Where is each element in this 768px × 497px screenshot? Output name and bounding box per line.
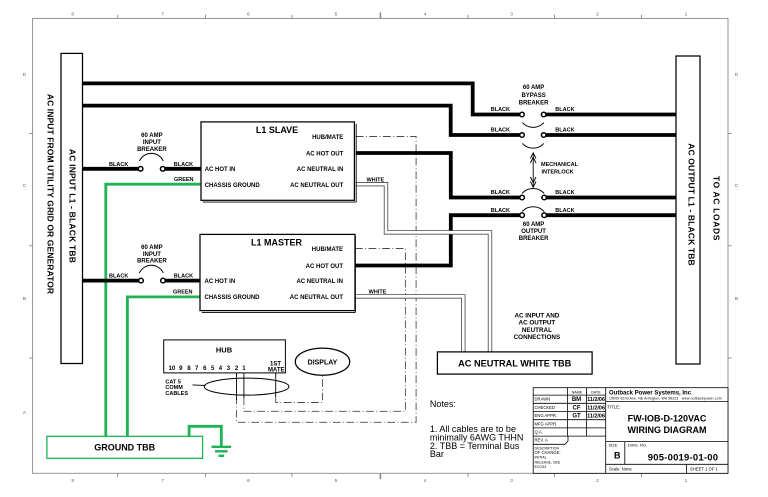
svg-text:Notes:: Notes: [430,399,456,409]
svg-text:GREEN: GREEN [174,177,194,183]
svg-text:B: B [614,451,621,461]
wire: HUB pin 2 drop (solid) [236,373,238,400]
value label: 60 AMP BYPASS BREAKER [519,85,549,106]
svg-text:BREAKER: BREAKER [519,100,549,106]
svg-text:TITLE:: TITLE: [608,404,621,409]
svg-text:INPUT: INPUT [143,252,161,258]
svg-text:60 AMP: 60 AMP [523,85,544,91]
wire: L1 SLAVE AC HOT OUT to output breaker pole 3 [356,153,520,198]
wire: output breaker pole 3 to AC OUTPUT TBB [546,196,676,200]
wire: white neutral from L1 SLAVE AC NEUTRAL OUT to AC NEUTRAL WHITE TBB [356,184,490,352]
svg-text:MATE: MATE [268,368,285,374]
svg-text:7: 7 [161,12,164,18]
svg-text:1: 1 [685,12,688,18]
wire: white neutral from L1 MASTER AC NEUTRAL OUT to AC NEUTRAL WHITE TBB [355,296,463,352]
svg-text:L1 SLAVE: L1 SLAVE [256,125,298,135]
svg-text:INITIAL: INITIAL [535,456,547,460]
svg-text:ENG APPR.: ENG APPR. [535,413,558,418]
wire: L1 bus from AC INPUT TBB to bypass breaker pole 2 [83,106,520,135]
svg-text:11/2/06: 11/2/06 [587,405,605,411]
svg-text:NAME: NAME [572,390,583,394]
svg-text:7: 7 [161,478,164,484]
value label: MECHANICAL INTERLOCK [541,162,579,176]
wire: HUB 1ST MATE drop (solid) [275,373,277,397]
svg-text:6: 6 [247,478,250,484]
breaker CB3: 60 AMP BYPASS BREAKER pole 1 [491,107,575,127]
svg-text:19009 62nd Ave. NE Arlington,: 19009 62nd Ave. NE Arlington, WA 98223 w… [609,397,722,401]
svg-text:AC OUTPUT: AC OUTPUT [519,320,556,327]
svg-text:TO AC LOADS: TO AC LOADS [712,176,722,241]
svg-text:HUB/MATE: HUB/MATE [312,247,343,253]
svg-text:SHEET 1 OF 1: SHEET 1 OF 1 [690,467,719,472]
breaker CB1: 60 AMP INPUT BREAKER (slave) [109,133,193,183]
wire: CAT5 comm (dash-dot) L1 MASTER HUB/MATE to HUB pin 1 [244,249,406,412]
svg-text:DISPLAY: DISPLAY [308,360,338,367]
svg-text:60 AMP: 60 AMP [141,133,162,139]
svg-text:2: 2 [596,478,599,484]
breaker CB4: 60 AMP OUTPUT BREAKER pole 2 [491,207,575,218]
svg-text:8: 8 [71,12,74,18]
wire: L1 bus from AC INPUT TBB to bypass breaker pole 1 [83,83,520,114]
svg-text:BM: BM [572,397,581,403]
svg-text:AC NEUTRAL IN: AC NEUTRAL IN [297,167,344,173]
GROUND TBB box [47,436,203,458]
svg-text:CF: CF [573,405,581,411]
svg-text:D: D [735,72,739,78]
svg-text:CHASSIS GROUND: CHASSIS GROUND [205,295,261,301]
svg-text:4: 4 [424,478,427,484]
wire: HUB pin 1 drop (solid) [243,373,245,398]
svg-text:Outback Power Systems, Inc: Outback Power Systems, Inc [609,390,692,396]
svg-text:NEUTRAL: NEUTRAL [522,327,552,334]
svg-text:AC INPUT AND: AC INPUT AND [514,313,559,320]
HUB box [164,340,286,374]
breaker CB4: 60 AMP OUTPUT BREAKER pole 1 [491,188,575,199]
wire: input breaker CB1 to L1 SLAVE AC HOT IN [165,167,201,171]
svg-text:AC INPUT L1 - BLACK TBB: AC INPUT L1 - BLACK TBB [68,149,78,263]
svg-text:BYPASS: BYPASS [521,93,545,99]
svg-text:B: B [23,296,26,302]
svg-text:2: 2 [596,12,599,18]
svg-text:HUB: HUB [216,346,233,355]
svg-text:AC HOT IN: AC HOT IN [205,167,236,173]
svg-text:HUB/MATE: HUB/MATE [312,135,343,141]
svg-text:10: 10 [169,366,176,372]
svg-text:SIZE: SIZE [609,443,618,448]
svg-text:5: 5 [335,478,338,484]
svg-text:ECO33: ECO33 [535,465,547,469]
svg-text:BLACK: BLACK [491,107,510,113]
svg-text:MECHANICAL: MECHANICAL [541,162,579,168]
breaker CB3: 60 AMP BYPASS BREAKER pole 2 [491,128,575,149]
svg-text:5: 5 [335,12,338,18]
svg-text:Bar: Bar [430,449,444,459]
wire: green link from GROUND TBB to earth ground symbol [189,426,221,446]
wire: output breaker pole 4 to AC OUTPUT TBB [546,213,676,217]
svg-text:C: C [23,183,27,189]
svg-text:BREAKER: BREAKER [137,147,167,153]
svg-text:D: D [23,72,27,78]
svg-text:DATE: DATE [591,390,601,394]
svg-text:AC NEUTRAL OUT: AC NEUTRAL OUT [290,183,344,189]
svg-text:BLACK: BLACK [555,208,574,214]
svg-text:BLACK: BLACK [174,274,193,280]
AC NEUTRAL WHITE TBB box [437,352,592,374]
svg-text:L1 MASTER: L1 MASTER [251,238,303,248]
svg-text:BLACK: BLACK [555,190,574,196]
svg-text:1: 1 [685,478,688,484]
wire: AC INPUT TBB to input breaker CB1 (L1 SLAVE) [83,167,139,171]
svg-text:CHASSIS GROUND: CHASSIS GROUND [205,183,261,189]
svg-text:3: 3 [510,12,513,18]
svg-text:BLACK: BLACK [109,274,128,280]
svg-text:BLACK: BLACK [555,107,574,113]
svg-text:6: 6 [247,12,250,18]
AC INPUT TBB (AC INPUT L1 - BLACK TBB) [61,53,83,363]
wire: green chassis ground from L1 MASTER to GROUND TBB [127,297,200,436]
value label: CAT 5 COMM CABLES [165,380,205,398]
svg-text:GROUND TBB: GROUND TBB [94,443,155,453]
svg-text:11/2/06: 11/2/06 [587,397,605,403]
svg-text:Q.A.: Q.A. [535,430,543,435]
svg-text:AC INPUT FROM UTILITY GRID OR: AC INPUT FROM UTILITY GRID OR GENERATOR [46,94,56,294]
svg-text:3: 3 [510,478,513,484]
svg-text:DRAWN: DRAWN [535,397,551,402]
title block [533,388,728,474]
svg-text:AC OUTPUT L1 - BLACK TBB: AC OUTPUT L1 - BLACK TBB [687,143,697,266]
svg-text:AC NEUTRAL IN: AC NEUTRAL IN [296,279,343,285]
cable loop ellipse (CAT 5 bundle) [204,378,289,395]
svg-text:8: 8 [71,478,74,484]
svg-text:AC HOT OUT: AC HOT OUT [306,264,344,270]
svg-text:C: C [735,183,739,189]
svg-text:WIRING DIAGRAM: WIRING DIAGRAM [628,425,707,435]
AC OUTPUT TBB (AC OUTPUT L1 - BLACK TBB) [676,56,700,364]
svg-text:BREAKER: BREAKER [137,259,167,265]
svg-text:INPUT: INPUT [143,140,161,146]
svg-text:60 AMP: 60 AMP [523,222,544,228]
op-amp/module U1: L1 SLAVE box [201,122,356,202]
wire: CAT5 comm (dash-dot) HUB 1ST MATE to DISPLAY [276,375,323,402]
svg-text:GREEN: GREEN [173,289,193,295]
wire: green chassis ground from L1 SLAVE to GROUND TBB [106,184,201,436]
svg-text:WHITE: WHITE [366,178,384,184]
svg-text:BLACK: BLACK [109,162,128,168]
value label: 60 AMP OUTPUT BREAKER [519,222,549,242]
svg-text:CHECKED: CHECKED [535,405,555,410]
DISPLAY (ellipse component) [295,348,349,375]
svg-text:REV. A: REV. A [535,438,548,443]
svg-text:WHITE: WHITE [369,290,387,296]
ground (earth symbol, green) [212,447,232,456]
svg-text:OF CHANGE:: OF CHANGE: [535,450,561,455]
svg-text:AC NEUTRAL WHITE TBB: AC NEUTRAL WHITE TBB [458,359,571,369]
wire: AC INPUT TBB to input breaker CB2 (L1 MASTER) [83,279,139,283]
svg-text:4: 4 [424,12,427,18]
wire: bypass breaker pole 1 to AC OUTPUT TBB [546,113,676,117]
svg-text:BLACK: BLACK [174,162,193,168]
svg-text:RELEASE, SEE: RELEASE, SEE [535,460,561,464]
svg-text:905-0019-01-00: 905-0019-01-00 [648,453,718,464]
svg-text:BLACK: BLACK [491,128,510,134]
svg-text:MFG APPR.: MFG APPR. [535,421,558,426]
op-amp/module U2: L1 MASTER box [200,234,355,312]
wire: L1 MASTER AC HOT OUT to output breaker pole 4 [355,215,520,265]
svg-text:11/2/06: 11/2/06 [587,414,605,420]
node label: AC INPUT AND AC OUTPUT NEUTRAL CONNECTIONS [514,313,561,342]
breaker CB2: 60 AMP INPUT BREAKER (master) [109,245,193,295]
svg-text:CONNECTIONS: CONNECTIONS [514,334,561,341]
wire: CAT5 comm (dash-dot) L1 SLAVE HUB/MATE to HUB pin 2 [237,137,417,423]
svg-text:BLACK: BLACK [491,190,510,196]
wire: input breaker CB2 to L1 MASTER AC HOT IN [165,279,200,283]
svg-text:BLACK: BLACK [491,208,510,214]
mechanical interlock arrow [530,153,536,187]
svg-text:DWG. NO.: DWG. NO. [628,443,647,448]
svg-text:FW-IOB-D-120VAC: FW-IOB-D-120VAC [628,414,707,424]
svg-text:AC HOT IN: AC HOT IN [205,279,236,285]
svg-text:GT: GT [572,414,581,420]
svg-text:Scale: None: Scale: None [609,467,632,472]
svg-text:BLACK: BLACK [555,128,574,134]
svg-text:AC NEUTRAL OUT: AC NEUTRAL OUT [290,295,344,301]
notes text [430,399,524,459]
svg-text:INTERLOCK: INTERLOCK [541,170,573,176]
svg-text:BREAKER: BREAKER [519,236,549,242]
svg-text:B: B [735,296,738,302]
svg-text:AC HOT OUT: AC HOT OUT [306,151,344,157]
svg-text:CABLES: CABLES [165,391,188,397]
wire: bypass breaker pole 2 to AC OUTPUT TBB [546,133,676,137]
svg-text:OUTPUT: OUTPUT [521,229,546,235]
pin numbers: 10 9 8 7 6 5 4 3 2 1 [169,366,247,372]
svg-text:60 AMP: 60 AMP [141,245,162,251]
